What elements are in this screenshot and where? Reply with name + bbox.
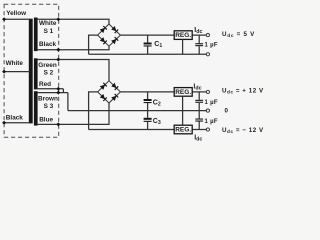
terminal channel1 ground [206,53,209,56]
svg-text:1 µF: 1 µF [205,100,218,106]
svg-text:REG.: REG. [175,89,191,96]
node Black S1 [56,48,60,52]
bridge rectifier U1 [98,24,121,46]
node Red S2 [56,87,60,91]
wire Brown S3 lead [38,92,68,94]
svg-text:White: White [6,60,24,67]
wire Black S1 to bridge U1 bottom [38,46,109,50]
svg-text:Udc = 5 V: Udc = 5 V [222,31,255,38]
svg-text:Blue: Blue [39,116,53,123]
wire +12V rail [120,91,206,93]
transformer secondary S1 winding bar [34,18,38,52]
wire Red S2 lead [38,88,64,90]
svg-text:White: White [39,20,57,27]
node White S1 [56,17,60,21]
diode U1-BL [100,37,107,44]
svg-text:S 3: S 3 [44,103,54,110]
svg-text:Green: Green [38,62,57,69]
svg-text:1 µF: 1 µF [205,43,218,49]
diode U2-BL [100,94,107,101]
diode U2-TR [111,83,118,90]
svg-text:S 2: S 2 [44,70,54,77]
wire White primary center tap [4,71,30,73]
wire REG1 ground lead [182,39,184,54]
svg-text:1 µF: 1 µF [205,119,218,125]
voltage regulator REG2 [174,88,192,97]
svg-text:Black: Black [6,115,23,122]
capacitor C1 [144,35,152,54]
wire -12V rail [89,129,207,131]
node Yellow tap [2,17,6,21]
svg-text:S 1: S 1 [44,28,54,35]
diode U2-BR [111,94,118,101]
diode U1-TR [111,26,118,33]
dashed enclosure around transformer [4,4,59,137]
wire bridge U1 negative output to ground rail [89,35,98,54]
transformer primary winding bar [29,19,33,124]
wire Yellow primary tap [4,18,30,20]
wire channel1 ground rail [89,53,207,55]
capacitor C3 [144,111,152,130]
voltage regulator REG1 [174,31,192,40]
svg-text:Idc: Idc [194,27,202,35]
svg-text:C1: C1 [154,41,162,49]
transformer secondary S3 winding bar [34,91,38,125]
terminal +12V [206,90,209,93]
wire Black primary tap [4,122,30,124]
svg-text:REG.: REG. [175,32,191,39]
node Brown S3 [56,91,60,95]
svg-text:Red: Red [39,81,51,88]
wire channel1 positive rail [120,34,206,36]
node Green S2 [56,58,60,62]
diode U1-BR [111,37,118,44]
svg-text:Brown: Brown [38,95,58,102]
terminal channel1 positive [206,34,209,37]
capacitor Cf2 1uF [195,92,203,111]
wire Green S2 to bridge U2 top [38,60,109,81]
wire center tap down to zero rail [67,93,69,111]
wire Blue S3 to bridge U2 bottom [38,103,109,124]
svg-text:Idc: Idc [194,134,202,142]
terminal -12V [206,128,209,131]
capacitor Cf1 1uF [195,35,203,54]
svg-text:0: 0 [225,107,229,114]
capacitor Cf3 1uF [195,111,203,130]
capacitor C2 [144,92,152,111]
svg-text:Udc = + 12 V: Udc = + 12 V [222,88,264,95]
terminal 0V [206,109,209,112]
wire White S1 to bridge U1 top [38,19,109,24]
svg-text:Udc = − 12 V: Udc = − 12 V [222,127,264,134]
node Blue S3 [56,122,60,126]
voltage regulator REG3 [174,125,192,134]
node White tap [2,70,6,74]
wire zero volt rail [68,110,206,112]
wire REG2 ground lead [182,96,184,110]
diode U2-TL [100,83,107,90]
wire REG3 ground lead [182,111,184,126]
svg-text:C2: C2 [153,99,161,107]
diode U1-TL [100,26,107,33]
svg-text:Black: Black [39,41,56,48]
svg-text:Yellow: Yellow [6,10,26,17]
svg-text:Idc: Idc [193,83,201,91]
transformer secondary S2 winding bar [34,58,38,89]
node Black tap [2,121,6,125]
bridge rectifier U2 [98,81,121,103]
wire Red-Brown center tap bracket [62,89,64,93]
svg-text:C3: C3 [153,118,161,126]
svg-text:REG.: REG. [175,127,191,134]
wire bridge U2 negative output down to -12 rail [89,92,98,130]
